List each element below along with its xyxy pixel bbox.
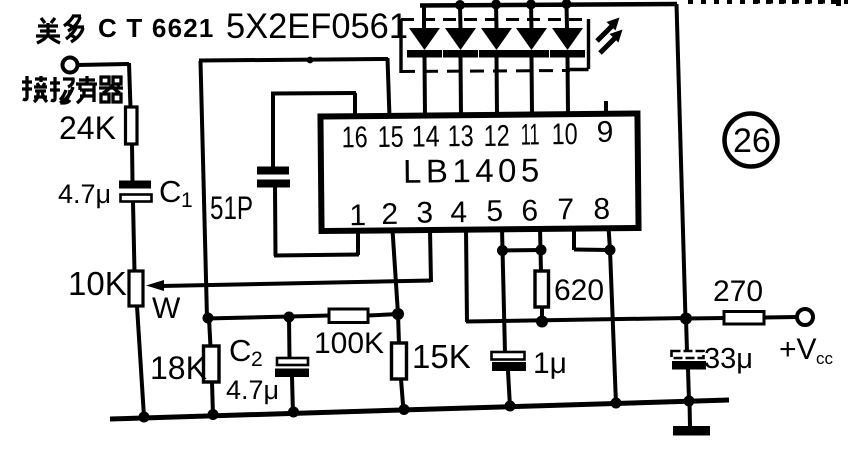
glyph 扬: [50, 77, 73, 103]
pot wiper arrow: [146, 280, 164, 291]
wire C2 to rail: [292, 377, 293, 414]
title text 美多 (hand-drawn glyphs): [36, 15, 84, 43]
node junction Vcc/270/33u: [680, 313, 692, 325]
wire anode bus: [420, 4, 677, 6]
wire 51P top lead: [271, 94, 275, 170]
wire 270 right lead: [764, 315, 797, 320]
potentiometer 10K body: [129, 271, 143, 306]
op-amp IC U1 LB1405 body: [320, 113, 638, 231]
capacitor C2 plate solid: [275, 369, 309, 378]
glyph 接: [22, 76, 47, 102]
wire to ground: [688, 401, 693, 427]
node junction rail/pin8: [611, 398, 622, 409]
capacitor C1 plate - (hollow): [121, 195, 152, 202]
terminal +Vcc: [797, 309, 813, 325]
svg-text:4.7μ: 4.7μ: [58, 179, 111, 209]
page marker circle 26: [725, 114, 778, 167]
wire 15K to rail: [401, 379, 404, 411]
node junction 18K top: [203, 313, 214, 324]
svg-text:LB1405: LB1405: [403, 151, 544, 189]
wire C2 top lead: [287, 317, 292, 359]
wire 33u to rail: [688, 369, 689, 401]
svg-text:11: 11: [520, 118, 539, 151]
svg-text:16: 16: [342, 121, 368, 154]
wire pin 8 drop: [609, 227, 611, 250]
wire Vcc horizontal below IC: [466, 318, 687, 322]
wire 51P bottom lead: [273, 187, 278, 256]
light emission arrow 2: [600, 30, 623, 54]
svg-text:6: 6: [521, 194, 538, 227]
wire pin 4 drop: [466, 229, 467, 322]
svg-text:15K: 15K: [412, 338, 471, 375]
resistor 18K: [204, 346, 220, 382]
node junction 33u/rail: [684, 396, 695, 407]
capacitor 51P plate bottom: [257, 180, 290, 188]
wire node to 18K: [209, 318, 211, 347]
wire 100K right lead: [368, 314, 399, 316]
wire C1 to pot: [133, 202, 135, 272]
svg-text:2: 2: [251, 348, 263, 371]
node junction rail/pot: [139, 412, 150, 423]
wire pins 5-6 tie: [502, 248, 541, 253]
wire pin 1 drop: [356, 230, 360, 255]
wire 51P loop bottom horizontal: [274, 255, 359, 256]
wire drop to pin 16: [353, 93, 357, 118]
svg-text:5X2EF0561: 5X2EF0561: [226, 7, 408, 46]
resistor 620: [535, 271, 549, 307]
wire pin 3 drop to wiper line: [430, 230, 431, 282]
speaker terminal: [63, 58, 78, 73]
svg-text:C: C: [229, 333, 251, 368]
svg-text:9: 9: [596, 116, 613, 149]
svg-text:33μ: 33μ: [704, 343, 753, 375]
glyph 美: [36, 18, 60, 43]
wire node to 15K: [398, 314, 399, 344]
capacitor C1 plate + (solid): [119, 181, 151, 189]
svg-text:15: 15: [378, 121, 404, 154]
wire wiper to pin3 riser: [161, 281, 431, 287]
ink blob on top wire: [307, 57, 314, 64]
svg-text:3: 3: [416, 196, 433, 229]
light emission arrow 1: [597, 18, 620, 42]
svg-text:1: 1: [349, 199, 366, 232]
glyph 多: [64, 15, 84, 42]
svg-text:10K: 10K: [68, 265, 127, 302]
wire 18K to rail: [212, 382, 213, 416]
capacitor 33u plate hollow: [672, 351, 704, 358]
svg-text:+V: +V: [779, 333, 817, 366]
wire corner down to 24K: [129, 63, 131, 108]
label 接扬声器 (hand-drawn glyphs): [22, 76, 123, 103]
wire pin 8 to rail: [610, 250, 616, 404]
ground: [673, 426, 710, 436]
capacitor 1u plate hollow: [492, 352, 525, 360]
svg-text:1: 1: [181, 189, 193, 212]
wire pin15 loop: top horizontal: [199, 59, 388, 61]
svg-text:C T 6621: C T 6621: [98, 13, 215, 43]
node junction rail/18K: [208, 409, 219, 420]
wire pot bottom to ground rail: [137, 306, 144, 417]
LED array dashed box: [401, 19, 589, 73]
node junction pin 8: [605, 245, 616, 256]
svg-text:4.7μ: 4.7μ: [226, 375, 279, 405]
svg-text:18K: 18K: [150, 350, 207, 386]
wire rise to pin 1: [356, 234, 360, 255]
svg-text:1μ: 1μ: [533, 347, 567, 380]
wire 33u top lead: [686, 318, 687, 352]
pin 9 stub (NC): [604, 101, 608, 112]
LED D2: [443, 0, 478, 116]
wire 270 left lead: [686, 316, 725, 321]
svg-text:13: 13: [448, 120, 474, 153]
node junction C2 top: [284, 312, 295, 323]
top edge scan dashes: [688, 0, 848, 4]
svg-text:7: 7: [557, 193, 574, 226]
wire pin 6 drop: [540, 228, 541, 272]
svg-text:100K: 100K: [314, 327, 384, 360]
svg-text:12: 12: [484, 120, 510, 153]
wire 51P loop top horizontal: [271, 91, 356, 96]
capacitor 51P plate top: [257, 167, 289, 175]
svg-text:270: 270: [713, 275, 763, 308]
wire pin 7 drop: [572, 227, 576, 250]
svg-text:2: 2: [381, 198, 398, 231]
wire node horizontal 18K/C2/100K: [206, 316, 330, 319]
capacitor C2 plate hollow: [277, 358, 308, 365]
svg-text:C: C: [159, 174, 181, 209]
svg-text:5: 5: [486, 195, 503, 228]
wire 1u to rail: [508, 371, 510, 407]
svg-text:W: W: [152, 292, 181, 325]
svg-text:4: 4: [450, 196, 467, 229]
node junction rail/C2: [288, 407, 299, 418]
svg-text:10: 10: [551, 118, 577, 151]
wire pin 5 drop to 1u: [502, 228, 505, 353]
svg-text:cc: cc: [816, 349, 834, 368]
resistor 15K: [392, 343, 407, 379]
wire terminal to corner: [77, 64, 129, 65]
capacitor 33u plate solid: [672, 361, 706, 370]
node junction pin2/100K/15K: [392, 308, 404, 320]
glyph 声: [76, 76, 97, 103]
node junction rail/15K: [399, 404, 410, 415]
svg-text:51P: 51P: [210, 190, 253, 226]
wire pins 7-8 tie: [574, 248, 610, 253]
wire 620 bottom lead: [540, 307, 544, 322]
svg-text:620: 620: [554, 274, 604, 307]
wire pin 2 drop: [393, 230, 399, 314]
glyph 器: [99, 77, 123, 102]
svg-text:14: 14: [412, 120, 440, 153]
svg-text:26: 26: [733, 122, 771, 160]
LED D4: [514, 0, 549, 115]
capacitor 1u plate solid: [492, 362, 526, 371]
node junction pin 6: [536, 245, 547, 256]
node junction 620/Vcc rail: [536, 316, 548, 328]
LED D5: [550, 0, 585, 114]
wire Vcc rail vertical: [677, 4, 686, 319]
resistor 270: [724, 312, 764, 325]
LED D1: [407, 5, 442, 117]
LED D3: [479, 0, 514, 115]
wire pin15 loop: left vertical: [201, 61, 208, 318]
resistor 100K: [329, 309, 368, 323]
ground rail: [110, 400, 729, 419]
node junction rail/1u: [505, 401, 516, 412]
wire pin15 loop: right drop to pin 15: [388, 58, 390, 117]
wire 24K to C1: [130, 144, 135, 182]
node junction pin 5: [497, 245, 508, 256]
svg-text:24K: 24K: [59, 110, 116, 146]
svg-text:8: 8: [593, 193, 610, 226]
resistor 24K: [126, 107, 138, 144]
